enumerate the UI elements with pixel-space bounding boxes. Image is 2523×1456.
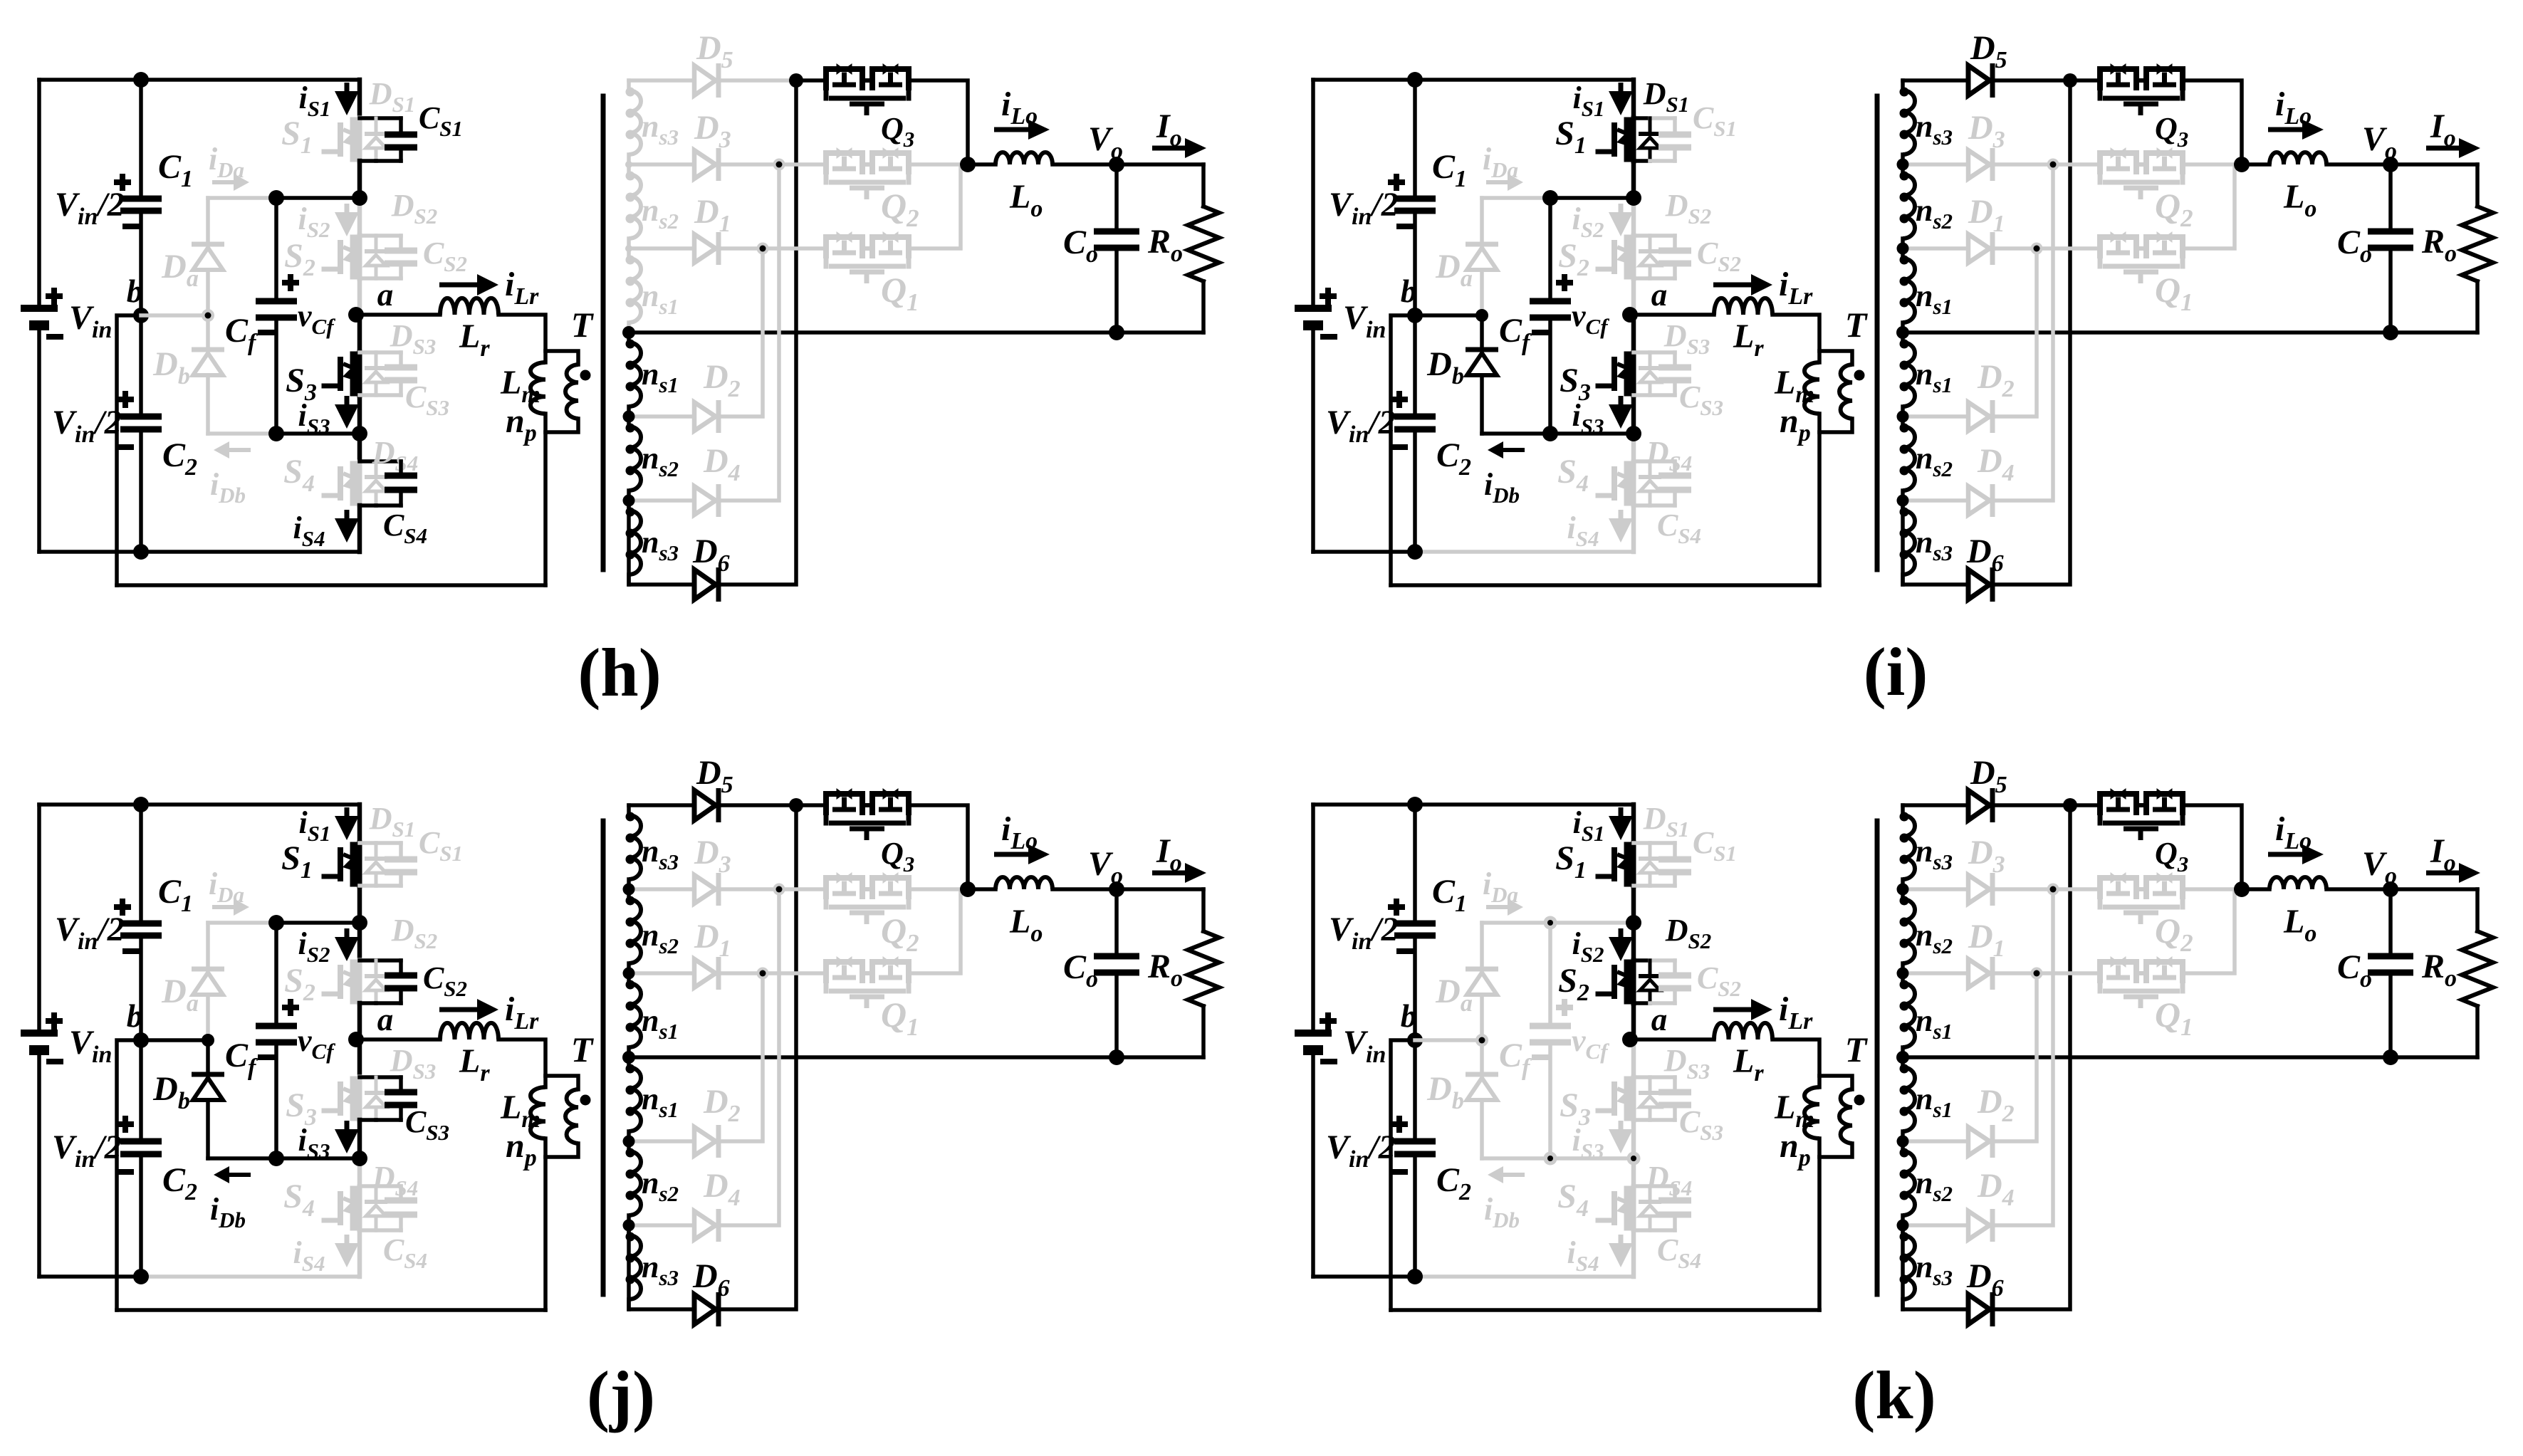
winding ns1 panel i [1901,332,1905,342]
transistor S2 panel j [357,960,362,1003]
wire S1 snubber bottom jog panel k [1634,884,1650,888]
wire return rail to transformer primary panel h [117,583,545,587]
wire S3 snubber top jog panel j [360,1075,376,1079]
wire S1 drain stub panel k [1631,805,1636,843]
capacitor CS2 panel k [1673,960,1677,975]
switch Q2 panel i [2100,153,2136,174]
wire S3 drain stub panel j [357,1039,362,1077]
node D1 rail junction panel k [2031,968,2043,980]
wire C1 to node b panel i [1413,211,1417,315]
wire S4 drain stub panel j [357,1158,362,1186]
svg-text:b: b [127,998,143,1034]
wire S1 snubber bottom jog panel h [360,159,376,163]
node D5/D6 rail top junction panel k [2063,798,2077,812]
node np polarity dot panel j [580,1095,591,1106]
inductor Lo panel k [2269,877,2326,889]
diode Db panel k [1480,1040,1484,1074]
diode D6 panel j [694,1294,716,1324]
node secondary tap dots panel h [625,161,632,168]
winding ns2 panel j [627,889,631,899]
node D5/D6 rail top junction panel i [2063,73,2077,88]
winding ns1 panel h [627,248,631,258]
current arrow iLr panel i [1713,283,1751,288]
node Cf top junction panel j [268,915,284,931]
svg-text:a: a [377,277,394,313]
capacitor CS3 panel i [1673,352,1677,367]
svg-text:(k): (k) [1852,1357,1936,1433]
current arrow iS3 panel h [345,396,350,407]
capacitor Cf panel i [1530,298,1571,305]
node S3/S4 junction panel j [352,1151,367,1166]
wire S4 snubber top jog panel j [360,1184,376,1188]
current arrow iLo panel k [2268,852,2302,857]
diode DS2 panel j [375,960,378,976]
wire tap D3 panel i [1903,162,1968,167]
wire secondary bottom tap panel i [1903,501,1968,585]
resistor Ro panel j [1201,889,1206,931]
diode D2 panel h [694,402,716,431]
transformer T core panel i [1875,96,1880,570]
transistor S1 panel i [1631,118,1636,161]
wire bottom rail left panel k [1313,1274,1415,1279]
wire S4 snubber bottom jog panel h [360,503,376,508]
node clamp column / b row junction panel j [202,1034,214,1047]
diode D1 panel k [1968,959,1990,988]
capacitor C1 panel k [1413,805,1417,923]
diode DS3 panel k [1649,1077,1652,1093]
wire Cf bottom to S3/S4 node panel k [1548,1042,1552,1158]
wire tap D3 panel j [629,887,694,891]
inductor Lm panel i [1804,362,1819,414]
current arrow Io panel k [2426,871,2459,876]
diode D2 panel k [1968,1127,1990,1156]
node top-rail/C1 junction panel j [133,797,149,812]
wire tap D1 panel k [1903,971,1968,975]
diode Db panel i [1480,315,1484,350]
wire S2 snubber bottom jog panel h [360,276,376,281]
wire S4 snubber top jog panel h [360,459,376,463]
node S3/S4 junction panel h [352,426,367,441]
current arrow iS4 panel i [1619,510,1624,521]
diode Da panel h [192,242,224,247]
wire S3 snubber top jog panel h [360,350,376,355]
inductor Lo panel j [996,877,1052,889]
wire S2 snubber top jog panel h [360,234,376,238]
node Cf top junction panel k [1544,916,1557,930]
node C2/bottom rail junction panel h [133,544,149,560]
wire Cf top to S1/S2 node panel i [1550,196,1634,200]
wire Q3 right to Lo node panel i [2185,80,2242,164]
winding ns1 panel i [1901,248,1905,258]
wire S1 source stub panel j [357,886,362,923]
wire node b jog to return rail panel i [1391,315,1415,585]
node D5/D6 rail top junction panel h [789,73,803,88]
node Cf bottom junction panel j [268,1151,284,1166]
wire S3 snubber bottom jog panel k [1634,1118,1650,1122]
current arrow iLr panel k [1713,1007,1751,1012]
wire left outer upper panel i [1311,80,1315,308]
wire S2 drain stub panel i [1631,198,1636,236]
current arrow Io panel j [1152,871,1185,876]
wire S2 drain stub panel j [357,923,362,960]
wire tap D2 panel i [1903,414,1968,419]
wire Cf top to S1/S2 node panel k [1550,921,1634,925]
capacitor C2 panel j [139,1040,143,1141]
current arrow iDb panel i [1503,448,1525,452]
transformer T core panel h [601,96,606,570]
capacitor CS3 panel h [399,352,403,367]
inductor Lr panel h [440,298,498,315]
transistor S3 panel k [1631,1077,1636,1120]
voltage source Vin panel i [1295,305,1332,312]
wire center tap to output return panel i [1903,330,2477,335]
wire return rail to transformer primary panel i [1391,583,1819,587]
node clamp column / b row junction panel h [202,309,214,322]
svg-text:b: b [1401,998,1417,1034]
wire S3 snubber bottom jog panel i [1634,393,1650,397]
diode D6 panel i [1968,570,1990,599]
node b panel h [133,308,149,323]
wire S1 snubber top jog panel k [1634,841,1650,845]
svg-text:b: b [127,273,143,309]
switch Q3 panel j [826,794,862,815]
diode D6 panel k [1968,1294,1990,1324]
current arrow Io panel i [2426,146,2459,151]
wire node b to clamp column panel h [141,313,208,318]
node S1/S2 junction panel j [352,915,367,931]
transistor S1 panel k [1631,843,1636,886]
diode DS1 panel i [1649,118,1652,134]
diode D1 panel i [1968,234,1990,263]
wire Lr to primary panel j [498,1039,545,1087]
diode D2 panel j [694,1127,716,1156]
current arrow iDb panel h [229,448,251,452]
diode D1 panel h [694,234,716,263]
wire Q2 right panel k [2185,887,2238,891]
wire Lr to primary panel i [1772,315,1819,362]
wire bottom rail right panel j [141,1274,360,1279]
wire S2 source stub panel j [357,1003,362,1039]
node S3/S4 junction panel k [1627,1152,1641,1166]
current arrow iDa panel j [212,905,234,909]
wire bottom rail right panel h [141,550,360,554]
diode DS4 panel h [375,461,378,477]
switch Q1 panel k [2100,962,2136,983]
current arrow iS2 panel k [1619,928,1624,940]
wire Lo input panel i [2242,162,2269,167]
node a panel j [348,1032,364,1047]
wire S2 snubber top jog panel j [360,958,376,963]
capacitor CS1 panel h [399,118,403,135]
wire primary below Lm panel k [1817,1138,1822,1310]
node np polarity dot panel k [1854,1095,1865,1106]
voltage source Vin panel j [21,1030,58,1037]
winding ns3 panel j [627,805,631,815]
wire S2 snubber top jog panel k [1634,958,1650,963]
current arrow iS2 panel h [345,204,350,215]
wire node b to clamp column panel j [141,1038,208,1042]
capacitor CS4 panel i [1673,461,1677,476]
wire Lo to Vo node panel j [1052,887,1203,891]
wire S4 drain stub panel h [357,434,362,461]
voltage source Vin panel k [1295,1030,1332,1037]
node b panel k [1407,1032,1423,1048]
diode D3 panel i [1968,150,1990,179]
wire top rail panel i [1313,78,1634,82]
wire Q1 right panel h [911,168,961,248]
wire C1 to node b panel h [139,211,143,315]
diode DS2 panel i [1649,236,1652,251]
wire Db to S3 source row panel i [1482,431,1550,436]
diode DS1 panel h [375,118,378,134]
winding ns1 panel j [627,1057,631,1067]
wire secondary top tap panel k [1903,803,1968,807]
wire S4 snubber bottom jog panel k [1634,1228,1650,1232]
wire Q1 right panel i [2185,168,2235,248]
node a panel k [1622,1032,1638,1047]
wire S1 source stub panel h [357,161,362,198]
transistor S4 panel h [357,462,362,505]
wire S1 snubber top jog panel h [360,116,376,120]
wire C2 to bottom rail panel k [1413,1154,1417,1277]
node Cf bottom junction panel h [268,426,284,441]
node C2/bottom rail junction panel j [133,1269,149,1284]
wire tap D4 panel k [1903,1223,1968,1227]
winding ns3 panel h [627,80,631,90]
wire left outer lower panel i [1311,325,1315,552]
wire Db to S3 source row panel j [208,1156,276,1161]
wire bottom rail right panel i [1415,550,1634,554]
diode D4 panel h [694,486,716,515]
wire S1 snubber bottom jog panel j [360,884,376,888]
capacitor CS4 panel k [1673,1186,1677,1200]
diode DS2 panel h [375,236,378,251]
current arrow iLo panel h [994,127,1028,132]
current arrow iS2 panel i [1619,204,1624,215]
wire Q1 right panel k [2185,893,2235,973]
transistor S4 panel k [1631,1187,1636,1230]
capacitor Cf panel k [1530,1023,1571,1030]
node Cf bottom junction panel k [1544,1152,1557,1166]
wire return rail to transformer primary panel k [1391,1308,1819,1312]
wire Cf bottom to S3/S4 node panel i [1548,318,1552,434]
wire C2 to bottom rail panel h [139,429,143,552]
wire left outer lower panel j [37,1050,41,1277]
diode D4 panel j [694,1211,716,1240]
node Vo panel j [1109,881,1124,897]
diode Da panel k [1466,967,1498,972]
node secondary tap dots panel i [1897,159,1909,171]
wire Q2 left panel h [779,162,824,167]
winding ns2 panel h [627,417,631,426]
node a panel i [1622,307,1638,323]
svg-text:(j): (j) [587,1357,655,1433]
wire S4 drain stub panel i [1631,434,1636,461]
wire Db to S3 source row panel k [1482,1156,1550,1161]
wire tap D4 panel i [1903,498,1968,503]
node Lo input panel k [2234,881,2250,897]
current arrow iS2 panel j [345,928,350,940]
wire S1 source stub panel k [1631,886,1636,923]
current arrow iS4 panel j [345,1235,350,1246]
node S1/S2 junction panel k [1626,915,1641,931]
node top-rail/C1 junction panel i [1407,72,1423,88]
wire Q1 left panel k [2037,971,2098,975]
current arrow iS4 panel k [1619,1235,1624,1246]
capacitor CS1 panel i [1673,118,1677,135]
node b panel i [1407,308,1423,323]
wire bottom rail left panel j [39,1274,141,1279]
wire S2 drain stub panel h [357,198,362,236]
node Co bottom panel j [1109,1049,1124,1065]
transistor S3 panel j [357,1077,362,1120]
node top-rail/C1 junction panel k [1407,797,1423,812]
wire S2 drain stub panel k [1631,923,1636,960]
inductor Lr panel j [440,1023,498,1039]
current arrow iS1 panel h [345,83,350,94]
wire Cf bottom to S3/S4 node panel h [274,318,278,434]
capacitor C1 panel h [139,80,143,199]
node Cf top junction panel i [1542,190,1558,206]
wire Cf top to S1/S2 node panel h [276,196,360,200]
node clamp column / b row junction panel i [1475,309,1488,322]
node S1/S2 junction panel i [1626,190,1641,206]
transistor S2 panel k [1631,960,1636,1003]
node D1 rail junction panel i [2031,243,2043,255]
capacitor CS3 panel k [1673,1077,1677,1092]
wire tap D4 panel h [629,498,694,503]
node D1 rail junction panel h [757,243,769,255]
resistor Ro panel i [2475,164,2480,206]
winding ns3 panel j [627,1225,631,1235]
wire S2 source stub panel h [357,278,362,315]
wire Q3 left panel h [796,78,824,83]
wire Lo input panel h [968,162,996,167]
wire S4 source stub panel k [1631,1230,1636,1277]
current arrow iS4 panel h [345,510,350,521]
winding ns3 panel i [1901,80,1905,90]
node Lo input panel j [960,881,976,897]
capacitor CS2 panel i [1673,236,1677,251]
diode Db panel j [206,1040,210,1074]
node clamp column / b row junction panel k [1475,1034,1488,1047]
capacitor Cf panel j [256,1023,297,1030]
diode D1 panel j [694,959,716,988]
wire bottom rail left panel i [1313,550,1415,554]
diode D2 panel i [1968,402,1990,431]
wire S4 snubber top jog panel k [1634,1184,1650,1188]
wire tap D1 panel i [1903,246,1968,251]
wire secondary bottom tap panel h [629,501,694,585]
wire Lo to Vo node panel h [1052,162,1203,167]
current arrow iDa panel h [212,180,234,184]
node np polarity dot panel i [1854,370,1865,381]
capacitor CS4 panel j [399,1186,403,1200]
capacitor Co panel k [2388,889,2393,956]
switch Q3 panel i [2100,69,2136,90]
inductor Lo panel h [996,152,1052,164]
wire S3 snubber bottom jog panel j [360,1118,376,1122]
winding ns3 panel i [1901,501,1905,510]
node D3 rail junction panel h [773,159,785,171]
wire node b jog to return rail panel k [1391,1040,1415,1310]
wire S2 snubber top jog panel i [1634,234,1650,238]
wire Lo to Vo node panel k [2326,887,2477,891]
wire center tap to output return panel h [629,330,1203,335]
wire bottom rail left panel h [39,550,141,554]
wire Q2 left panel k [2053,887,2098,891]
wire Q1 left panel h [763,246,824,251]
wire Da branch top panel i [1482,196,1550,200]
wire Da branch top panel k [1482,921,1550,925]
wire Da branch top panel h [208,196,276,200]
capacitor CS2 panel j [399,960,403,975]
diode DS3 panel i [1649,352,1652,368]
wire top rail panel h [39,78,360,82]
capacitor Cf panel h [256,298,297,305]
capacitor C2 panel i [1413,315,1417,417]
wire top rail panel k [1313,802,1634,807]
wire primary below Lm panel h [543,414,548,585]
winding ns1 panel h [627,332,631,342]
transformer T core panel j [601,821,606,1294]
diode D3 panel k [1968,875,1990,904]
wire S1 source stub panel i [1631,161,1636,198]
diode DS1 panel j [375,843,378,859]
wire S4 drain stub panel k [1631,1158,1636,1186]
transistor S1 panel h [357,118,362,161]
winding ns2 panel k [1901,1141,1905,1151]
wire secondary top tap panel h [629,78,694,83]
wire S3 source stub panel h [357,395,362,434]
wire S3 source stub panel i [1631,395,1636,434]
wire Lo to Vo node panel i [2326,162,2477,167]
svg-text:T: T [1845,1030,1869,1069]
inductor Lo panel i [2269,152,2326,164]
inductor Lm panel k [1804,1087,1819,1138]
wire S3 snubber bottom jog panel h [360,393,376,397]
wire S4 snubber top jog panel i [1634,459,1650,463]
capacitor Co panel h [1114,164,1119,231]
wire Q3 left panel k [2070,803,2098,807]
transistor S4 panel i [1631,462,1636,505]
current arrow iS1 panel k [1619,807,1624,819]
node Vo panel h [1109,157,1124,172]
wire S2 snubber bottom jog panel j [360,1001,376,1005]
wire center tap to output return panel j [629,1055,1203,1059]
winding ns1 panel k [1901,973,1905,983]
wire tap D1 panel h [629,246,694,251]
winding ns2 panel h [627,164,631,174]
switch Q1 panel j [826,962,862,983]
node Co bottom panel i [2383,325,2398,340]
diode DS4 panel k [1649,1186,1652,1202]
inductor Lm panel h [531,362,545,414]
winding ns2 panel j [627,1141,631,1151]
wire Q3 right to Lo node panel j [911,805,968,889]
wire Q3 right to Lo node panel k [2185,805,2242,889]
diode Db panel h [206,315,210,350]
diode DS1 panel k [1649,843,1652,859]
switch Q3 panel h [826,69,862,90]
wire S4 snubber bottom jog panel j [360,1228,376,1232]
svg-text:(i): (i) [1864,634,1928,710]
current arrow iLr panel j [439,1007,477,1012]
wire S4 source stub panel h [357,506,362,552]
switch Q2 panel h [826,153,862,174]
wire S3 drain stub panel i [1631,315,1636,352]
diode Da panel j [192,967,224,972]
